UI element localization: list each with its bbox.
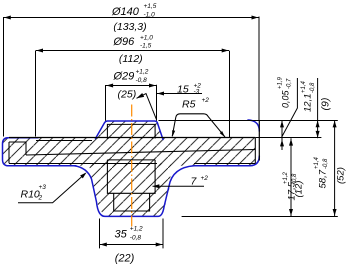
d29 dimension line — [106, 85, 157, 87]
leader 7deg — [153, 185, 205, 187]
svg-text:Ø96: Ø96 — [113, 36, 136, 48]
leader 0,05 — [281, 78, 297, 138]
sloped interior machined line — [26, 150, 255, 156]
svg-text:(52): (52) — [336, 167, 347, 184]
svg-text:+1,5: +1,5 — [144, 3, 157, 10]
svg-text:R10: R10 — [21, 189, 40, 201]
svg-text:-0,8: -0,8 — [136, 77, 148, 84]
thin allowance line left web — [36, 140, 92, 142]
dim 35 line — [100, 244, 164, 246]
svg-text:12,1: 12,1 — [303, 94, 314, 113]
leader from (25) to hub corner — [137, 94, 157, 120]
casting step top line H1 — [159, 120, 260, 122]
svg-text:+1,2: +1,2 — [136, 69, 149, 76]
flange draft arrowhead left — [172, 130, 175, 137]
ext line x259 (d140 right, continues to part) — [258, 17, 260, 121]
ext line H3 hub bottom right — [182, 216, 338, 218]
hatched web section — [3, 138, 255, 166]
svg-text:-0,8: -0,8 — [323, 158, 329, 169]
d140 dimension line — [4, 17, 260, 19]
machined left edge — [8, 142, 10, 163]
machined bottom line right of hub — [194, 163, 255, 165]
flange draft arrowhead right — [220, 131, 225, 137]
machined hub rect B — [114, 193, 150, 211]
ext line H1 right — [259, 120, 338, 122]
casting hub top boss outline — [96, 121, 164, 140]
machined top line across web — [9, 137, 255, 139]
svg-text:-1,5: -1,5 — [140, 43, 152, 50]
svg-text:R5: R5 — [182, 99, 196, 111]
svg-text:-0,8: -0,8 — [310, 82, 316, 93]
svg-text:+1,4: +1,4 — [314, 156, 320, 169]
svg-text:Ø140: Ø140 — [111, 6, 140, 18]
svg-text:+3: +3 — [39, 184, 47, 191]
casting right edge — [258, 120, 260, 161]
hatched hub bottom boss section — [89, 163, 171, 216]
svg-text:-1,0: -1,0 — [144, 12, 156, 19]
svg-text:58,7: 58,7 — [318, 169, 329, 188]
svg-text:(12): (12) — [294, 181, 305, 198]
ext line x156.5 (d29 right) — [156, 85, 158, 121]
ext line x105.8 (d29 left) — [105, 85, 107, 121]
ext line x35.5 (d96 left) — [35, 51, 37, 137]
ext line x3.3 (d140 left) — [3, 17, 5, 137]
dim 17,5 line x291 — [290, 138, 292, 216]
dim 12,1 line x317.6 — [317, 78, 319, 138]
svg-text:35: 35 — [115, 229, 128, 241]
hatched hub top boss section — [97, 121, 163, 139]
machined hub rect A — [107, 159, 155, 161]
ext line x99.3 (35 left) — [99, 219, 101, 249]
machined left-end step recess — [9, 142, 26, 155]
svg-text:-0,7: -0,7 — [287, 78, 293, 89]
casting outline left end cap — [3, 138, 77, 166]
svg-text:0,05: 0,05 — [281, 89, 291, 108]
svg-text:-0,8: -0,8 — [130, 235, 142, 242]
ext line x163.2 (35 right) — [162, 219, 164, 249]
svg-text:(133,3): (133,3) — [113, 21, 146, 33]
ext line x229.2 (d96 right) — [229, 51, 231, 138]
svg-text:2: 2 — [38, 195, 43, 202]
svg-text:+1,2: +1,2 — [130, 225, 143, 232]
dim 15 line — [157, 93, 203, 95]
machined hub top box — [107, 124, 155, 138]
svg-text:+1,9: +1,9 — [278, 76, 284, 89]
svg-text:-3: -3 — [194, 89, 200, 96]
svg-text:+1,4: +1,4 — [301, 80, 307, 93]
casting right end rounded corners — [248, 120, 259, 131]
svg-text:+2: +2 — [201, 175, 209, 182]
small dim marks x282 — [281, 120, 283, 150]
ext line H2 right — [255, 137, 321, 139]
d96 dimension line — [36, 50, 230, 52]
dim 58,7/(52) line x334.6 — [334, 120, 336, 216]
machined bottom line left of hub — [9, 163, 157, 165]
svg-text:(22): (22) — [115, 253, 135, 265]
svg-text:(25): (25) — [118, 88, 137, 100]
svg-text:Ø29: Ø29 — [113, 71, 135, 83]
orange dash-dot centerline — [131, 105, 133, 227]
svg-text:+2: +2 — [202, 97, 210, 104]
svg-text:(9): (9) — [320, 98, 332, 111]
svg-text:(112): (112) — [119, 53, 143, 65]
flange boss trapezoid top — [172, 114, 225, 137]
machined right edge — [254, 138, 256, 164]
svg-text:+1,2: +1,2 — [283, 171, 289, 184]
casting hub bottom boss outline with R10 fillets — [74, 166, 250, 217]
svg-text:+1,0: +1,0 — [140, 35, 153, 42]
leader R10 — [18, 174, 85, 203]
svg-text:15: 15 — [177, 84, 189, 96]
